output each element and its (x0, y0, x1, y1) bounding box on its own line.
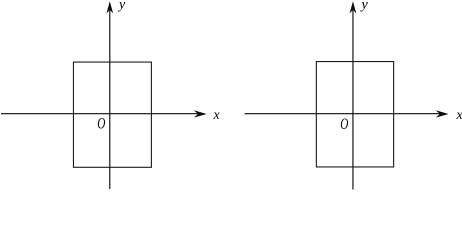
svg-text:O: O (340, 115, 348, 132)
left plot y-axis arrowhead (106, 1, 113, 13)
svg-text:x: x (456, 108, 462, 123)
right rectangle (316, 62, 393, 167)
right plot x-axis (245, 113, 441, 115)
left plot x-axis (1, 113, 199, 115)
svg-text:O: O (97, 115, 105, 132)
svg-text:y: y (117, 0, 126, 13)
right plot y-axis (352, 10, 354, 190)
left plot x-axis arrowhead (194, 110, 207, 117)
svg-text:y: y (360, 0, 369, 13)
right plot y-axis arrowhead (350, 1, 357, 13)
svg-text:x: x (213, 108, 221, 123)
left rectangle (73, 62, 151, 167)
right plot x-axis arrowhead (436, 110, 449, 117)
left plot y-axis (109, 10, 111, 189)
